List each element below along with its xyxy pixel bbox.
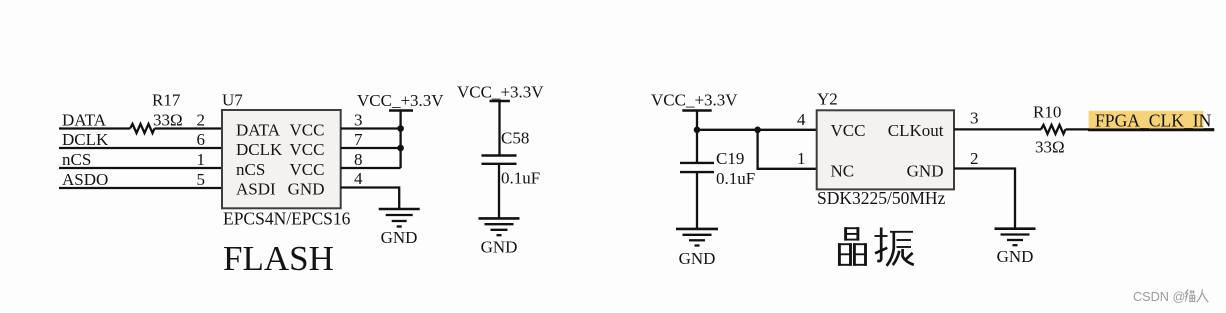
power VCC_+3.3V C58	[490, 101, 510, 156]
wire branch to Y2 pin1	[758, 130, 817, 169]
junction pin3	[397, 125, 404, 132]
oscillator Y2	[817, 110, 954, 189]
capacitor C58	[482, 156, 517, 219]
svg-text:5: 5	[197, 170, 206, 189]
svg-text:4: 4	[797, 110, 806, 129]
svg-text:CLKout: CLKout	[888, 121, 944, 140]
resistor R10	[1041, 125, 1066, 134]
ground Y2	[995, 229, 1036, 246]
wire DATA net	[59, 127, 222, 129]
wire pin4 to GND	[341, 188, 400, 210]
svg-text:ASDO: ASDO	[62, 170, 108, 189]
svg-text:nCS: nCS	[62, 150, 91, 169]
flash chip U7	[222, 110, 341, 208]
ground C19	[676, 229, 718, 246]
svg-text:GND: GND	[381, 228, 418, 247]
svg-text:0.1uF: 0.1uF	[716, 169, 755, 188]
svg-text:4: 4	[354, 169, 363, 188]
net highlight FPGA_CLK_IN	[1089, 111, 1204, 129]
svg-text:R10: R10	[1033, 103, 1061, 122]
watermark 人 glyph	[1197, 290, 1209, 303]
svg-text:GND: GND	[907, 161, 944, 180]
title 晶 glyph	[838, 227, 866, 266]
capacitor C19	[680, 130, 714, 229]
wire R10 to FPGA_CLK_IN	[1066, 128, 1090, 130]
power VCC_+3.3V flash	[389, 111, 413, 169]
svg-text:FLASH: FLASH	[223, 239, 334, 278]
wire GND pin2	[954, 169, 1015, 229]
svg-text:U7: U7	[222, 91, 243, 110]
svg-text:6: 6	[197, 130, 206, 149]
svg-text:8: 8	[354, 150, 363, 169]
svg-text:VCC_+3.3V: VCC_+3.3V	[457, 83, 544, 102]
resistor R17	[130, 124, 155, 133]
junction C19	[694, 127, 701, 134]
svg-text:VCC: VCC	[290, 140, 325, 159]
svg-text:CSDN @: CSDN @	[1133, 290, 1185, 304]
power VCC_+3.3V osc	[682, 111, 711, 130]
ground flash	[379, 209, 420, 227]
svg-text:33Ω: 33Ω	[153, 111, 183, 130]
svg-text:C58: C58	[501, 129, 529, 148]
svg-text:Y2: Y2	[817, 90, 838, 109]
svg-text:GND: GND	[481, 238, 518, 257]
wire pin8 to VCC	[341, 167, 401, 169]
svg-text:SDK3225/50MHz: SDK3225/50MHz	[817, 188, 946, 208]
ground C58	[479, 218, 520, 235]
wire DCLK net	[59, 147, 222, 149]
svg-text:DCLK: DCLK	[62, 130, 109, 149]
svg-text:VCC_+3.3V: VCC_+3.3V	[651, 90, 738, 109]
svg-text:ASDI: ASDI	[236, 180, 276, 199]
svg-text:2: 2	[197, 110, 206, 129]
svg-text:DCLK: DCLK	[236, 140, 283, 159]
svg-text:3: 3	[354, 110, 363, 129]
svg-text:VCC_+3.3V: VCC_+3.3V	[357, 91, 444, 110]
svg-text:VCC: VCC	[290, 160, 325, 179]
svg-text:NC: NC	[831, 161, 855, 180]
wire VCC to Y2 pin4	[697, 129, 817, 131]
wire ASDO net	[59, 187, 222, 189]
svg-text:3: 3	[970, 109, 979, 128]
junction pin1 branch	[754, 127, 761, 134]
svg-text:C19: C19	[716, 149, 744, 168]
watermark 猫 glyph	[1185, 290, 1195, 302]
svg-text:0.1uF: 0.1uF	[501, 169, 540, 188]
junction pin7	[397, 145, 404, 152]
svg-text:GND: GND	[288, 180, 325, 199]
svg-text:EPCS4N/EPCS16: EPCS4N/EPCS16	[223, 208, 351, 228]
wire nCS net	[59, 167, 222, 169]
wire pin7 to VCC	[341, 147, 401, 149]
svg-text:DATA: DATA	[62, 110, 107, 129]
svg-text:33Ω: 33Ω	[1035, 138, 1065, 157]
svg-text:R17: R17	[152, 91, 181, 110]
svg-text:GND: GND	[997, 247, 1034, 266]
svg-text:1: 1	[797, 149, 806, 168]
svg-text:DATA: DATA	[236, 120, 281, 139]
wire pin3 to VCC	[341, 127, 401, 129]
svg-text:2: 2	[970, 149, 979, 168]
svg-text:VCC: VCC	[290, 120, 325, 139]
svg-text:7: 7	[354, 130, 363, 149]
svg-text:GND: GND	[679, 249, 716, 268]
svg-text:FPGA_CLK_IN: FPGA_CLK_IN	[1095, 111, 1212, 131]
svg-text:VCC: VCC	[831, 121, 866, 140]
svg-text:1: 1	[197, 150, 206, 169]
svg-text:nCS: nCS	[236, 160, 265, 179]
wire CLKout pin3	[954, 128, 1041, 130]
title 振 glyph	[875, 228, 914, 266]
